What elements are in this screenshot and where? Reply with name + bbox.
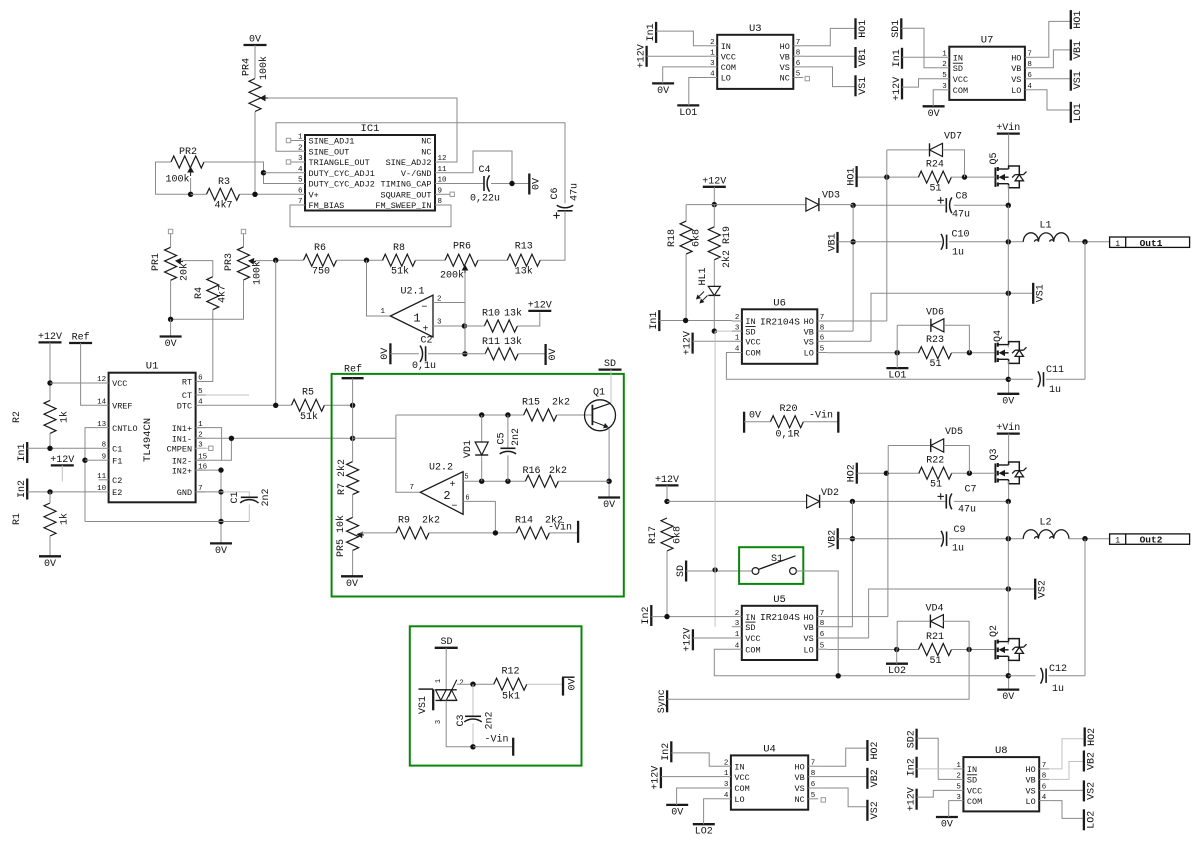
wire node to R7 — [352, 438, 354, 461]
port In2 — [17, 479, 28, 500]
wire PR3 wiper to chain — [255, 260, 276, 262]
svg-text:5: 5 — [942, 72, 947, 80]
wire VD4 left leg — [897, 621, 929, 649]
ground 0V right of R11 — [546, 344, 559, 365]
svg-text:COM: COM — [967, 797, 982, 807]
svg-text:U6: U6 — [773, 297, 786, 309]
svg-text:9: 9 — [438, 188, 443, 196]
svg-text:0V: 0V — [928, 109, 940, 120]
svg-text:LO: LO — [804, 349, 814, 359]
wire PR6 to R13 — [478, 259, 507, 261]
wire SD to S1 — [686, 567, 752, 572]
chip U6 IR2104S — [732, 297, 827, 364]
svg-text:NC: NC — [780, 74, 790, 84]
resistor R8 51k — [383, 243, 416, 278]
svg-text:SD: SD — [967, 776, 977, 786]
svg-text:IN2-: IN2- — [172, 456, 192, 466]
diode VD3 — [806, 191, 840, 212]
svg-text:HO1: HO1 — [1073, 11, 1084, 29]
capacitor C8 47u — [938, 192, 971, 221]
svg-text:8: 8 — [811, 770, 816, 778]
svg-text:11: 11 — [97, 473, 107, 481]
wire U6 VB right — [827, 330, 853, 332]
svg-text:VS2: VS2 — [870, 801, 881, 819]
resistor R22 51 — [919, 456, 952, 491]
wire C9 node to Q2 drain — [1007, 539, 1009, 645]
wire U4 VB to VB2 — [818, 776, 867, 778]
chip U5 IR2104S — [732, 594, 827, 660]
svg-text:IR2104S: IR2104S — [760, 317, 800, 328]
wire SD1 to U7 SD — [901, 28, 939, 68]
svg-text:51: 51 — [929, 359, 941, 370]
svg-text:VS1: VS1 — [858, 77, 869, 95]
wire IC1 pin2 loop to C6 top — [276, 123, 565, 204]
net label SD1 at U7 — [891, 18, 902, 39]
svg-text:R11: R11 — [482, 337, 500, 348]
capacitor C7 47u — [938, 485, 977, 516]
wire U6 COM return — [726, 353, 1008, 380]
wire PR6 wiper down — [462, 273, 467, 356]
resistor R12 5k1 — [494, 667, 527, 703]
svg-text:+12V: +12V — [651, 766, 662, 790]
svg-text:SQUARE_OUT: SQUARE_OUT — [380, 191, 431, 201]
wire U2.2 pin5 row — [463, 474, 525, 484]
svg-text:0V: 0V — [215, 546, 227, 557]
wire VS2 net — [869, 586, 1036, 638]
wire L1 to Out1 — [1069, 239, 1110, 244]
svg-text:VS1: VS1 — [418, 696, 429, 714]
net label SD2 at U8 — [906, 729, 917, 750]
svg-text:200k: 200k — [440, 270, 464, 282]
svg-text:GND: GND — [177, 488, 192, 498]
svg-text:VS: VS — [794, 784, 804, 794]
wire U5 VS right — [827, 637, 868, 639]
svg-text:R23: R23 — [926, 335, 944, 346]
svg-text:+12V: +12V — [683, 628, 694, 652]
svg-text:E2: E2 — [112, 488, 122, 498]
svg-text:0V: 0V — [568, 678, 579, 690]
svg-text:R18: R18 — [667, 229, 678, 247]
svg-text:LO: LO — [721, 74, 731, 84]
svg-text:R13: R13 — [515, 242, 533, 253]
wire R4 to U1 RT — [206, 310, 213, 382]
svg-text:R3: R3 — [218, 177, 230, 188]
svg-text:1k: 1k — [59, 411, 71, 423]
svg-text:R9: R9 — [398, 516, 410, 527]
svg-text:VB1: VB1 — [858, 48, 869, 66]
net label SD above green box — [599, 359, 622, 370]
svg-text:6: 6 — [465, 495, 469, 503]
LED HL1 — [696, 267, 720, 303]
svg-text:LO2: LO2 — [1086, 811, 1097, 829]
wire VB2 net vertical — [850, 501, 855, 626]
diode VD4 — [925, 604, 943, 628]
svg-text:5: 5 — [464, 474, 468, 482]
svg-text:+12V: +12V — [892, 77, 903, 101]
wire +12V row to VD2 — [667, 500, 807, 502]
power +12V at U5 — [683, 628, 694, 652]
svg-text:U5: U5 — [773, 594, 786, 606]
wire Ref to VREF — [81, 343, 99, 405]
wire SD row U6 — [715, 330, 732, 332]
svg-text:+12V: +12V — [655, 475, 679, 486]
no-connect square pin1 IC1 — [286, 138, 295, 142]
wire chain down to DTC row — [275, 260, 277, 405]
svg-text:3: 3 — [437, 319, 442, 327]
transistor Q2 MOSFET — [989, 625, 1027, 660]
svg-text:7: 7 — [298, 198, 303, 206]
svg-text:VB: VB — [780, 52, 790, 62]
wire GND pin7 — [196, 491, 221, 493]
wire R20 to -Vin — [803, 421, 838, 423]
svg-text:20k: 20k — [179, 263, 191, 281]
port In2 at U4 — [661, 741, 672, 762]
capacitor C1 2n2 — [230, 488, 272, 506]
ground 0V at U4 — [666, 805, 688, 819]
diode VD7 — [930, 132, 963, 157]
svg-text:7: 7 — [820, 314, 825, 322]
wire C9 to L2 node — [949, 536, 1023, 541]
wire +Vin to Q5 drain — [1008, 134, 1010, 169]
svg-text:1: 1 — [435, 679, 443, 683]
wire C2 to R11 — [428, 353, 486, 355]
wire In2 to U8 IN — [917, 768, 954, 770]
inductor L2 — [1023, 518, 1069, 539]
op-amp IC1 function generator — [295, 123, 447, 211]
wire U5 LO to R21 — [827, 647, 919, 652]
svg-text:IN2+: IN2+ — [172, 466, 192, 476]
svg-text:6: 6 — [1027, 72, 1032, 80]
svg-text:C6: C6 — [550, 187, 561, 199]
net label LO1 below U3 — [677, 105, 699, 119]
resistor R10 13k — [482, 308, 522, 333]
svg-text:LO1: LO1 — [1073, 103, 1084, 121]
svg-text:VS1: VS1 — [1036, 284, 1047, 302]
svg-text:C3: C3 — [456, 714, 467, 726]
svg-text:-Vin: -Vin — [548, 522, 572, 534]
wire U3 VS to VS1 — [803, 67, 855, 87]
svg-text:0V: 0V — [603, 500, 615, 511]
svg-text:6: 6 — [820, 631, 825, 639]
wire In1 to C1 pin8 — [27, 446, 98, 451]
svg-text:SINE_OUT: SINE_OUT — [309, 147, 350, 157]
wire U7 LO to LO1 — [1035, 90, 1071, 110]
svg-text:4: 4 — [1027, 83, 1032, 91]
wire C4 to 0V — [491, 181, 529, 186]
svg-text:-Vin: -Vin — [809, 410, 833, 422]
svg-text:VCC: VCC — [721, 52, 736, 62]
ground 0V at U7 — [923, 106, 945, 120]
svg-text:TRIANGLE_OUT: TRIANGLE_OUT — [309, 158, 370, 168]
svg-text:R17: R17 — [648, 526, 659, 544]
wire gate node — [457, 682, 494, 687]
svg-text:S1: S1 — [771, 554, 783, 565]
svg-text:R8: R8 — [393, 243, 405, 254]
svg-text:0V: 0V — [165, 339, 177, 350]
svg-text:LO: LO — [1025, 797, 1035, 807]
svg-text:1: 1 — [724, 770, 729, 778]
svg-text:3: 3 — [942, 83, 947, 91]
svg-text:0V: 0V — [749, 411, 761, 422]
wire R1 to ground — [49, 536, 51, 556]
power +12V above VD3 — [702, 176, 726, 187]
no-connect square U3 NC — [805, 76, 809, 80]
wire U8 LO to LO2 — [1049, 801, 1084, 819]
svg-text:1k: 1k — [59, 513, 71, 525]
potentiometer PR2 — [165, 147, 204, 186]
svg-text:100k: 100k — [258, 56, 270, 80]
svg-text:DTC: DTC — [177, 402, 192, 412]
transistor Q5 MOSFET — [989, 152, 1027, 187]
wire IN2- row extension — [222, 438, 232, 460]
svg-text:U7: U7 — [981, 35, 994, 47]
wire PR5 to ground — [352, 550, 354, 576]
svg-text:VB: VB — [1011, 64, 1021, 74]
svg-text:6k8: 6k8 — [691, 229, 703, 247]
wire Q1 emitter down — [606, 428, 611, 498]
wire 0V to PR4 — [254, 45, 256, 78]
svg-text:DUTY_CYC_ADJ2: DUTY_CYC_ADJ2 — [309, 180, 375, 190]
wire CNTLO F1 down — [82, 428, 98, 522]
svg-text:3: 3 — [724, 781, 729, 789]
svg-text:47u: 47u — [570, 183, 581, 201]
wire node to pin4 — [264, 172, 296, 174]
net label LO2 below U4 — [693, 824, 715, 838]
svg-text:R10: R10 — [482, 309, 500, 320]
svg-text:R14: R14 — [515, 516, 533, 527]
wire PR4 bottom to R3 node — [254, 112, 256, 194]
wire In2 to U4 IN — [671, 753, 721, 766]
wire C12 right — [1049, 675, 1086, 677]
svg-text:750: 750 — [312, 267, 330, 278]
capacitor C2 0,1u — [412, 336, 436, 373]
svg-text:51k: 51k — [391, 266, 409, 278]
svg-text:3: 3 — [710, 60, 715, 68]
svg-text:HO: HO — [794, 762, 804, 772]
svg-text:IN: IN — [745, 317, 755, 327]
net label VB2 at C9 — [828, 528, 839, 549]
net label Ref top left — [69, 332, 92, 344]
svg-text:IN: IN — [745, 613, 755, 623]
resistor R16 2k2 — [522, 465, 567, 487]
wire +12V to U8 VCC — [917, 790, 954, 797]
svg-text:+12V: +12V — [702, 176, 726, 187]
svg-text:3: 3 — [298, 155, 303, 163]
svg-text:2: 2 — [735, 610, 740, 618]
wire In1 row U6 — [659, 318, 732, 323]
svg-text:LO1: LO1 — [888, 371, 906, 382]
svg-text:VB: VB — [804, 327, 814, 337]
resistor R20 0,1R — [770, 404, 803, 441]
wire U5 COM return — [714, 649, 1008, 678]
wire IN1- to green box — [196, 436, 356, 441]
svg-text:HO: HO — [803, 613, 813, 623]
svg-text:51: 51 — [929, 184, 941, 195]
switch S1 box — [739, 547, 803, 584]
svg-text:2: 2 — [942, 61, 947, 69]
svg-text:1: 1 — [380, 308, 385, 316]
svg-text:2n2: 2n2 — [261, 488, 272, 506]
resistor R17 6k8 — [648, 518, 684, 551]
wire DTC to R5 — [206, 403, 291, 408]
svg-text:6: 6 — [811, 781, 816, 789]
svg-text:SINE_ADJ1: SINE_ADJ1 — [309, 137, 355, 147]
resistor R18 6k8 — [667, 221, 703, 254]
svg-text:0V: 0V — [941, 820, 953, 831]
svg-text:4: 4 — [735, 642, 740, 650]
svg-text:4: 4 — [198, 399, 203, 407]
svg-text:VCC: VCC — [745, 338, 760, 348]
svg-text:1: 1 — [1115, 240, 1120, 249]
wire +12V row to VD3 — [686, 204, 806, 206]
svg-text:Q2: Q2 — [989, 625, 1000, 637]
svg-text:1u: 1u — [952, 544, 964, 555]
svg-text:−: − — [451, 502, 457, 513]
svg-text:+Vin: +Vin — [996, 122, 1020, 134]
wire PR4 wiper to IC1 pin12 — [268, 98, 457, 162]
svg-text:COM: COM — [721, 63, 736, 73]
wire R22 to Q3 gate — [951, 471, 996, 476]
svg-text:8: 8 — [820, 324, 825, 332]
wire 0V node to C12 — [1008, 675, 1035, 677]
power +12V top left — [38, 332, 62, 343]
svg-text:0V: 0V — [532, 178, 543, 190]
wire Sync to Q2 gate node — [667, 650, 969, 700]
no-connect square U4 NC — [821, 798, 825, 802]
svg-text:0V: 0V — [380, 348, 391, 360]
wire R3 left — [191, 193, 207, 195]
net label HO1 right of U3 — [856, 18, 869, 39]
resistor R15 2k2 — [522, 397, 570, 422]
svg-text:4k7: 4k7 — [214, 200, 232, 212]
wire PR2 wiper stem — [188, 178, 193, 197]
thyristor VS1 pin2 gate — [449, 680, 464, 697]
svg-text:+12V: +12V — [528, 300, 552, 311]
svg-text:3: 3 — [956, 794, 961, 802]
svg-text:0V: 0V — [44, 559, 56, 570]
svg-text:2: 2 — [710, 39, 715, 47]
wire +12V to U4 VCC — [661, 776, 721, 778]
wire R15 to Q1 base — [557, 414, 593, 416]
svg-text:VB: VB — [803, 623, 813, 633]
svg-text:SD: SD — [953, 64, 963, 74]
svg-text:Sync: Sync — [657, 689, 668, 713]
svg-text:IN: IN — [967, 765, 977, 775]
resistor R4 4k7 — [194, 277, 229, 310]
svg-text:C2: C2 — [112, 476, 122, 486]
svg-text:U4: U4 — [763, 743, 776, 755]
svg-text:+12V: +12V — [636, 44, 647, 68]
svg-text:2: 2 — [735, 314, 740, 322]
svg-text:R12: R12 — [501, 667, 519, 678]
svg-text:8: 8 — [820, 620, 825, 628]
wire VD3 to C8 node — [820, 204, 853, 206]
svg-text:7: 7 — [811, 759, 816, 767]
svg-text:SD2: SD2 — [906, 730, 917, 748]
svg-text:0,22u: 0,22u — [470, 194, 500, 205]
net label VS2 right of U8 — [1084, 780, 1097, 801]
svg-text:2: 2 — [437, 296, 442, 304]
svg-text:2n2: 2n2 — [485, 711, 496, 729]
wire Q2 source down — [1006, 661, 1011, 690]
capacitor C6 47u — [550, 183, 581, 219]
svg-text:Q4: Q4 — [993, 330, 1004, 342]
svg-text:SD1: SD1 — [891, 20, 902, 38]
svg-text:VB: VB — [794, 773, 804, 783]
capacitor C4 0,22u — [470, 165, 500, 205]
wire U8 VB to VB2 — [1049, 762, 1084, 780]
ground 0V right of C4 — [529, 174, 542, 195]
chip U4 driver — [721, 743, 818, 809]
svg-text:VS: VS — [804, 338, 814, 348]
chip U8 driver — [953, 745, 1049, 811]
wire R23 to Q4 gate — [952, 350, 996, 355]
svg-text:VS2: VS2 — [1038, 580, 1049, 598]
wire node to R10 — [464, 325, 484, 327]
svg-text:C1: C1 — [230, 491, 241, 503]
wire IC1 pin10 to C4 — [445, 183, 484, 185]
wire U6 HO right — [827, 320, 887, 322]
svg-text:R4: R4 — [194, 287, 205, 299]
wire Q3 source to C9 row — [1007, 501, 1009, 538]
svg-text:R22: R22 — [926, 456, 944, 467]
wire U5 HO right — [827, 616, 888, 618]
power +12V at U4 — [651, 766, 662, 790]
ground 0V at U8 — [936, 817, 958, 831]
wire R8 to PR6 — [415, 259, 445, 261]
svg-text:L1: L1 — [1039, 221, 1051, 232]
svg-text:R20: R20 — [779, 404, 797, 415]
wire C10 to L1 node — [949, 239, 1023, 244]
no-connect square pin3 IC1 — [286, 160, 295, 164]
svg-text:R19: R19 — [722, 226, 733, 244]
svg-text:+12V: +12V — [682, 331, 693, 355]
svg-text:1: 1 — [298, 134, 303, 142]
wire R16 right — [558, 480, 609, 482]
svg-text:LO: LO — [1011, 86, 1021, 96]
ground 0V below PR1 — [160, 337, 182, 351]
ground 0V left of C2 — [380, 343, 391, 364]
potentiometer PR6 200k — [440, 242, 478, 282]
svg-text:1u: 1u — [1052, 684, 1064, 695]
wire Q5 source to C10 row — [1007, 205, 1009, 242]
resistor R19 2k2 — [708, 226, 733, 268]
svg-text:IN: IN — [953, 54, 963, 64]
wire U3 VB to VB1 — [803, 55, 855, 57]
svg-text:+12V: +12V — [906, 787, 917, 811]
svg-text:4: 4 — [724, 792, 729, 800]
port In2 at U8 — [906, 757, 917, 778]
net label VS1 right of U7 — [1071, 70, 1084, 91]
svg-text:In1: In1 — [17, 443, 28, 461]
net label VB1 at C10 — [827, 232, 838, 253]
power +12V above R17 — [655, 475, 679, 486]
wire 0V to U3 COM — [663, 67, 708, 84]
svg-text:4: 4 — [710, 71, 715, 79]
svg-text:SD: SD — [604, 359, 616, 370]
svg-text:SD: SD — [676, 565, 687, 577]
wire U6 LO to R23 — [827, 350, 919, 355]
svg-text:6: 6 — [820, 335, 825, 343]
svg-text:C12: C12 — [1049, 664, 1067, 675]
svg-text:VCC: VCC — [734, 773, 749, 783]
resistor R1 1k — [12, 503, 71, 536]
net label -Vin in green box — [548, 521, 578, 543]
svg-text:PR4: PR4 — [242, 58, 253, 76]
svg-text:SINE_ADJ2: SINE_ADJ2 — [386, 158, 432, 168]
wire Out1 node down to C11 — [1084, 242, 1086, 379]
port In1 at U3 — [646, 22, 657, 43]
